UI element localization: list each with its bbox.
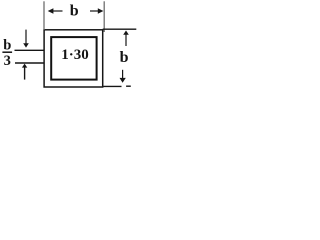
top dimension right extension line xyxy=(103,1,105,32)
svg-text:3: 3 xyxy=(4,53,11,69)
svg-text:b: b xyxy=(120,49,129,66)
top dimension left extension line xyxy=(43,1,45,30)
top dimension left arrow xyxy=(50,10,63,12)
fraction bar xyxy=(2,51,12,53)
svg-text:b: b xyxy=(3,38,11,54)
svg-text:b: b xyxy=(70,3,79,20)
svg-text:1·30: 1·30 xyxy=(61,47,89,63)
top dimension right arrow xyxy=(90,10,101,12)
right dimension top extension line xyxy=(103,28,137,30)
left thickness down arrow xyxy=(25,30,27,44)
right dimension down arrow xyxy=(122,70,124,79)
left thickness upper leader line xyxy=(15,49,45,51)
right dimension up arrow xyxy=(123,31,129,35)
outer square (side b) xyxy=(44,30,103,87)
right dimension bottom extension line segment 2 xyxy=(126,85,131,87)
right dimension bottom extension line segment 1 xyxy=(103,85,121,87)
left thickness lower leader line xyxy=(15,62,45,64)
inner square (hole) xyxy=(51,37,96,80)
left thickness up arrow xyxy=(22,64,27,68)
